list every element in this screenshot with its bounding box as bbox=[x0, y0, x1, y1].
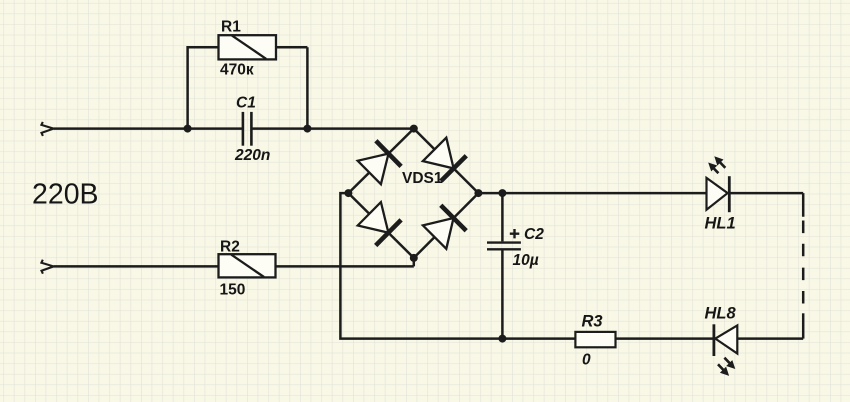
LED HL8 arrows bbox=[718, 358, 735, 376]
svg-text:C2: C2 bbox=[524, 226, 544, 243]
wire right rail to HL1 bbox=[478, 192, 706, 195]
junction dot right rail bbox=[498, 189, 506, 197]
diode VDS1/2 (top node to right node) bbox=[423, 138, 466, 181]
wire R2 to bridge bottom bbox=[276, 258, 414, 267]
junction dot top line right bbox=[303, 125, 311, 133]
node dot top bbox=[410, 125, 418, 133]
svg-text:150: 150 bbox=[220, 282, 246, 299]
wire C2 bottom bbox=[501, 250, 504, 338]
svg-text:VDS1: VDS1 bbox=[402, 170, 443, 187]
svg-text:10µ: 10µ bbox=[513, 252, 539, 269]
wire right side lower solid bbox=[802, 313, 805, 338]
svg-text:R1: R1 bbox=[221, 19, 241, 36]
svg-text:220n: 220n bbox=[234, 147, 270, 164]
wire right side dashed segment bbox=[802, 221, 805, 304]
diode VDS1/3 (left node to bottom node) bbox=[358, 202, 401, 245]
resistor R3 bbox=[575, 332, 615, 347]
wire bridge side left-top bbox=[348, 129, 413, 194]
svg-text:0: 0 bbox=[582, 352, 591, 369]
capacitor C1 bbox=[243, 112, 252, 146]
bridge rectifier VDS1 : diode VDS1/1 (left node to top node) bbox=[358, 141, 401, 184]
wire negative rail: left node down and along bottom bbox=[340, 193, 575, 339]
wire R1 branch right bbox=[276, 47, 307, 128]
wire R1 branch left bbox=[188, 47, 219, 128]
resistor R2 bbox=[219, 254, 276, 277]
wire top line left of C1 bbox=[54, 127, 243, 130]
junction dot bottom rail bbox=[498, 335, 506, 343]
wire bridge side top-right bbox=[414, 129, 479, 194]
svg-text:C1: C1 bbox=[236, 94, 256, 111]
wire C2 top bbox=[501, 193, 504, 241]
LED HL1 bbox=[707, 176, 730, 212]
LED HL1 arrows bbox=[708, 156, 725, 173]
svg-text:470к: 470к bbox=[220, 61, 254, 78]
capacitor C2 polarized bbox=[487, 243, 521, 250]
node dot right bbox=[474, 189, 482, 197]
node dot left bbox=[344, 189, 352, 197]
LED HL8 bbox=[714, 324, 737, 356]
wire R3 to HL8 bbox=[616, 337, 714, 340]
svg-text:220В: 220В bbox=[32, 179, 99, 211]
wire top line right of C1 bbox=[251, 127, 413, 130]
junction dot top line left bbox=[184, 125, 192, 133]
wire HL8 to right corner bbox=[737, 337, 803, 340]
input arrow top bbox=[41, 122, 53, 136]
svg-text:HL8: HL8 bbox=[705, 304, 737, 322]
node dot bottom bbox=[410, 254, 418, 262]
wire HL1 to right corner bbox=[729, 193, 803, 217]
svg-text:R3: R3 bbox=[582, 312, 603, 330]
resistor R1 bbox=[219, 35, 277, 59]
svg-text:R2: R2 bbox=[220, 239, 240, 256]
svg-text:HL1: HL1 bbox=[705, 215, 736, 233]
plus sign C2 bbox=[510, 229, 520, 238]
diode VDS1/4 (bottom node to right node) bbox=[423, 205, 466, 249]
wire bridge side left-bottom bbox=[348, 193, 413, 258]
input arrow bottom bbox=[41, 260, 53, 274]
wire bottom input to R2 bbox=[54, 265, 219, 268]
wire bridge side bottom-right bbox=[414, 193, 479, 258]
